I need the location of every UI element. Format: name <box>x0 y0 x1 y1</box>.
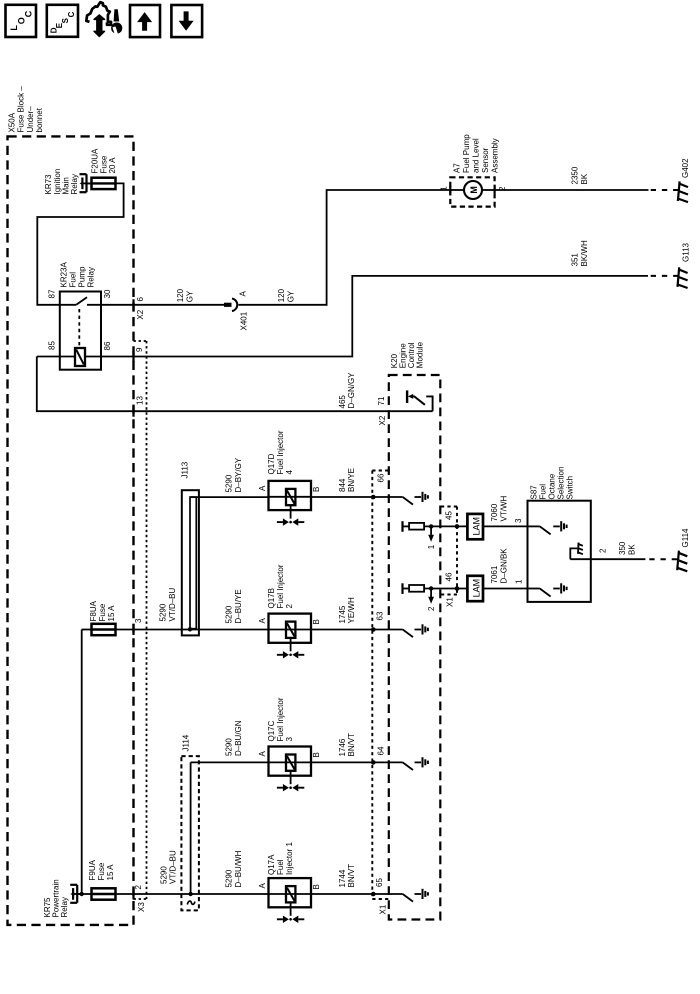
svg-text:350: 350 <box>618 541 627 555</box>
fuse block pin 2 tick <box>132 889 134 900</box>
svg-text:B: B <box>312 487 321 492</box>
motor M symbol <box>450 189 464 191</box>
svg-text:Switch: Switch <box>566 476 575 500</box>
ECM pin 64 driver to ground <box>403 762 413 770</box>
svg-text:1: 1 <box>515 579 524 584</box>
svg-text:BN/YE: BN/YE <box>347 468 356 492</box>
A7 pin 1 label <box>440 186 449 191</box>
ECM pin 65 driver to ground <box>403 894 413 902</box>
svg-text:351: 351 <box>571 253 580 267</box>
svg-text:1: 1 <box>427 544 436 549</box>
svg-text:GY: GY <box>185 290 194 302</box>
pin 46 connector dot <box>455 586 460 591</box>
ECM pin 63 driver to ground <box>403 630 413 638</box>
pin 45 connector dot <box>455 524 460 529</box>
button DESC <box>47 5 78 37</box>
svg-text:Fuel: Fuel <box>539 484 548 500</box>
svg-text:45: 45 <box>445 511 454 520</box>
Q17A coil <box>269 893 312 895</box>
splice pack J114 dashed box <box>181 756 199 910</box>
ECM pin 63 label <box>376 611 385 620</box>
svg-text:5290: 5290 <box>159 603 168 621</box>
label 120 GY right <box>277 288 295 302</box>
svg-text:X3: X3 <box>137 902 146 912</box>
svg-text:Fuse Block –: Fuse Block – <box>17 86 26 133</box>
svg-text:X2: X2 <box>136 309 145 319</box>
svg-text:VT/WH: VT/WH <box>499 496 508 522</box>
svg-text:6: 6 <box>136 297 145 302</box>
svg-text:BN/VT: BN/VT <box>347 733 356 757</box>
Q17D pin A label <box>258 485 267 491</box>
pin 30 label <box>103 289 112 298</box>
Q17C pin B label <box>312 752 321 757</box>
arrow to circuit 2 <box>430 589 432 598</box>
svg-text:13: 13 <box>136 396 145 405</box>
wire 351 BK/WH (pin 86 to G113) <box>85 276 648 357</box>
svg-text:86: 86 <box>103 341 112 350</box>
svg-text:71: 71 <box>377 396 386 405</box>
A7 pin 1 tick <box>449 186 451 194</box>
pin 63 connector dot <box>371 627 376 632</box>
svg-text:BK: BK <box>580 173 589 184</box>
S87 switch contact (pin 1) <box>528 588 540 590</box>
Q17D coil <box>269 496 312 498</box>
J114 center wire <box>190 762 192 894</box>
wire KR75 branch up to F8UA <box>81 630 83 895</box>
fuse F8UA 15 A <box>82 629 92 631</box>
wire 5290 D-BU/YE (J113 to Q17B) <box>190 629 269 631</box>
wire 1745 YE/WH <box>311 629 403 631</box>
svg-text:3: 3 <box>134 618 143 623</box>
ECM pin 46 label <box>445 572 454 581</box>
svg-text:120: 120 <box>277 288 286 302</box>
connector face dotted line <box>134 340 147 342</box>
svg-text:Fuel Injector: Fuel Injector <box>276 697 285 741</box>
pin 85 label <box>48 341 57 350</box>
ECM connector X1 dotted strip <box>372 470 389 472</box>
ECM X1 dotted strip (pins 45/46) <box>441 506 457 508</box>
svg-text:3: 3 <box>514 518 523 523</box>
svg-text:Relay: Relay <box>60 897 69 917</box>
svg-text:A7: A7 <box>453 163 462 173</box>
svg-text:2: 2 <box>285 604 294 609</box>
wire KR73 to F20UA <box>87 182 92 184</box>
svg-text:C: C <box>67 11 76 17</box>
svg-text:120: 120 <box>176 288 185 302</box>
svg-text:Octane: Octane <box>548 473 557 499</box>
S87 pin 1 label <box>515 579 524 584</box>
S87 switch contact (pin 3) <box>528 525 540 527</box>
svg-text:844: 844 <box>338 478 347 492</box>
wire 465 D-GN/GY (to ECM pin 71) <box>37 357 433 412</box>
svg-text:A: A <box>258 883 267 889</box>
svg-text:S87: S87 <box>530 485 539 500</box>
svg-text:20 A: 20 A <box>108 157 117 174</box>
pin 64 connector dot <box>371 760 376 765</box>
label X50A Fuse Block Underbonnet <box>7 112 16 132</box>
svg-text:D–GN/GY: D–GN/GY <box>347 372 356 409</box>
wire pin 45 to LAM <box>424 525 467 527</box>
svg-text:BK/WH: BK/WH <box>580 240 589 266</box>
Q17C spray symbol <box>277 787 283 789</box>
label 120 GY left <box>176 288 194 302</box>
svg-text:A: A <box>239 291 248 297</box>
svg-text:X1: X1 <box>446 597 455 607</box>
injector Q17D Fuel Injector 4 box <box>269 481 312 510</box>
ECM internal supply T-bar (pin 45) <box>401 521 403 532</box>
ground G114 <box>677 551 679 571</box>
svg-text:Fuel Pump: Fuel Pump <box>462 134 471 173</box>
svg-text:G113: G113 <box>682 242 691 262</box>
switch S87 Fuel Octane Selection Switch box <box>528 501 591 602</box>
fuse block pin 9 tick <box>132 351 134 362</box>
svg-text:B: B <box>312 619 321 624</box>
svg-text:D–BY/GY: D–BY/GY <box>234 457 243 492</box>
ECM pin 66 driver to ground <box>403 497 413 505</box>
svg-text:Module: Module <box>416 341 425 368</box>
module K20 Engine Control Module dashed box <box>389 375 441 920</box>
wire 7060 VT/WH <box>483 525 528 527</box>
Q17B coil <box>269 629 312 631</box>
svg-text:O: O <box>17 17 27 24</box>
svg-text:1: 1 <box>440 186 449 191</box>
svg-text:1744: 1744 <box>338 869 347 887</box>
fuse block pin 6 tick <box>132 299 134 310</box>
wire 5290 VT/D-BU (F9UA to J114) <box>116 893 184 895</box>
wire 844 BN/YE <box>311 496 403 498</box>
svg-text:85: 85 <box>48 341 57 350</box>
connector LAM (7061) <box>467 576 483 601</box>
wire 1744 BN/VT <box>311 893 403 895</box>
wire pin 85 to corner <box>37 356 75 358</box>
fuse F20UA 20 A <box>92 178 116 189</box>
svg-text:1745: 1745 <box>338 605 347 623</box>
svg-text:5290: 5290 <box>159 866 168 884</box>
svg-text:Q17B: Q17B <box>267 588 276 608</box>
svg-text:Pump: Pump <box>78 266 87 287</box>
ECM pin 45 label <box>445 511 454 520</box>
svg-text:2350: 2350 <box>571 166 580 184</box>
connector X401 <box>232 299 237 312</box>
svg-text:G114: G114 <box>681 528 690 548</box>
svg-text:64: 64 <box>377 746 386 755</box>
S87 pin 2 label <box>599 548 608 553</box>
Q17A pin A label <box>258 883 267 889</box>
ECM pin 66 label <box>377 473 386 482</box>
A7 pin 2 label <box>498 186 507 191</box>
svg-text:Fuel: Fuel <box>69 272 78 288</box>
relay KR23A Fuel Pump Relay box <box>60 292 101 370</box>
relay KR75 Powertrain Relay (output stub) <box>70 884 77 886</box>
svg-text:D–BU/WH: D–BU/WH <box>234 850 243 887</box>
svg-text:5290: 5290 <box>225 869 234 887</box>
svg-text:X50A: X50A <box>7 112 16 132</box>
ground G402 <box>678 181 680 201</box>
fuse block pin 13 tick <box>132 406 134 417</box>
svg-text:4: 4 <box>285 470 294 475</box>
svg-text:X1: X1 <box>379 904 388 914</box>
pin 66 connector dot <box>371 495 376 500</box>
wire through J114 to Q17A <box>183 893 269 895</box>
ground G113 <box>678 267 680 287</box>
svg-text:Injector 1: Injector 1 <box>285 842 294 875</box>
ECM pin 65 label <box>375 878 384 887</box>
connector LAM (7060) <box>467 514 483 539</box>
svg-text:and Level: and Level <box>472 138 481 173</box>
Q17D spray symbol <box>277 521 283 523</box>
resistor (pin 46 pull-up) <box>403 588 410 590</box>
svg-text:D–GN/BK: D–GN/BK <box>499 548 508 584</box>
S87 internal chassis ground <box>570 548 577 559</box>
svg-text:J113: J113 <box>181 461 190 478</box>
wire 120 GY (pin 30 to X401) <box>87 304 224 306</box>
arrow to circuit 1 <box>430 526 432 535</box>
svg-text:B: B <box>312 884 321 889</box>
svg-text:30: 30 <box>103 289 112 298</box>
svg-text:2: 2 <box>599 548 608 553</box>
svg-text:VT/D–BU: VT/D–BU <box>169 850 178 884</box>
svg-text:Relay: Relay <box>87 267 96 287</box>
svg-text:Under–: Under– <box>26 106 35 133</box>
svg-text:Fuse: Fuse <box>98 603 107 621</box>
svg-text:VT/D–BU: VT/D–BU <box>168 587 177 621</box>
svg-text:LAM: LAM <box>472 517 482 536</box>
svg-text:Fuel: Fuel <box>276 859 285 875</box>
ECM pin 71 driver <box>426 396 432 411</box>
svg-text:J114: J114 <box>182 734 191 751</box>
A7 pin 2 tick <box>494 186 496 194</box>
svg-text:66: 66 <box>377 473 386 482</box>
svg-text:GY: GY <box>286 290 295 302</box>
fuse block pin 3 tick <box>132 624 134 635</box>
svg-text:F20UA: F20UA <box>91 148 100 174</box>
Q17C pin A label <box>258 751 267 757</box>
wire 1746 BN/VT <box>311 761 403 763</box>
ECM pin 64 label <box>377 746 386 755</box>
wire 7061 D-GN/BK <box>483 588 528 590</box>
injector Q17C Fuel Injector 3 box <box>269 747 312 776</box>
KR23A coil <box>75 348 85 366</box>
wire 5290 VT/D-BU (F8UA to J113) <box>116 629 191 631</box>
svg-text:C: C <box>23 10 33 17</box>
svg-text:465: 465 <box>338 395 347 409</box>
svg-text:15 A: 15 A <box>107 605 116 622</box>
label X3 connector <box>137 902 146 912</box>
svg-text:46: 46 <box>445 572 454 581</box>
svg-text:KR23A: KR23A <box>60 261 69 287</box>
label X2 connector <box>136 309 145 319</box>
svg-text:15 A: 15 A <box>106 864 115 881</box>
svg-text:9: 9 <box>135 347 144 352</box>
junction dot J114 <box>188 892 192 896</box>
ECM internal supply T-bar (pin 46) <box>401 583 403 594</box>
svg-text:A: A <box>258 618 267 624</box>
svg-text:65: 65 <box>375 878 384 887</box>
button LOC <box>6 5 37 37</box>
svg-text:LAM: LAM <box>472 579 482 598</box>
Q17A pin B label <box>312 884 321 889</box>
svg-text:X2: X2 <box>378 415 387 425</box>
pin 86 label <box>103 341 112 350</box>
injector Q17A Fuel Injector 1 box <box>269 878 312 907</box>
label 5290 D-BU/WH <box>225 850 243 887</box>
svg-text:D–BU/YE: D–BU/YE <box>234 589 243 623</box>
svg-text:X401: X401 <box>240 311 249 330</box>
svg-text:Q17A: Q17A <box>267 854 276 875</box>
wire pin 46 to LAM <box>424 588 467 590</box>
svg-text:A: A <box>258 485 267 491</box>
svg-text:L: L <box>9 25 19 31</box>
svg-text:G402: G402 <box>681 158 690 178</box>
junction dot pin 46 <box>429 586 433 590</box>
relay KR73 Ignition Main Relay (output stub) <box>80 173 87 175</box>
svg-text:Q17D: Q17D <box>267 453 276 474</box>
junction dot KR75 branch <box>80 892 84 896</box>
svg-text:D–BU/GN: D–BU/GN <box>234 720 243 756</box>
pin 87 label <box>48 289 57 298</box>
icon adjust (arrows + wrench) <box>86 2 122 36</box>
svg-text:Relay: Relay <box>70 174 79 194</box>
svg-text:Assembly: Assembly <box>491 138 500 173</box>
svg-text:Fuel Injector: Fuel Injector <box>276 564 285 608</box>
svg-text:7060: 7060 <box>490 503 499 521</box>
svg-text:Fuel Injector: Fuel Injector <box>276 430 285 474</box>
Q17B pin B label <box>312 619 321 624</box>
button up arrow <box>130 5 160 37</box>
svg-text:63: 63 <box>376 611 385 620</box>
pin 65 connector dot <box>371 892 376 897</box>
button down arrow <box>171 5 202 37</box>
injector Q17B Fuel Injector 2 box <box>269 614 312 643</box>
A7 Fuel Pump and Level Sensor Assembly box <box>450 177 494 206</box>
fuse block X50A dashed box <box>8 136 134 925</box>
wire 350 BK <box>570 558 645 560</box>
wire 5290 D-BU/GN (J114 to Q17C) <box>191 761 269 763</box>
wire F20UA to KR23A pin 87 <box>37 183 123 304</box>
svg-text:KR73: KR73 <box>44 174 53 195</box>
Q17C coil <box>269 761 312 763</box>
wire 120 GY (X401 to A7) <box>238 190 449 305</box>
svg-text:5290: 5290 <box>225 474 234 492</box>
fuse F9UA 15 A <box>77 893 91 895</box>
svg-text:1746: 1746 <box>338 738 347 756</box>
svg-text:5290: 5290 <box>225 605 234 623</box>
svg-text:2: 2 <box>134 885 143 890</box>
junction dot J113 bottom <box>188 627 192 631</box>
wire 2350 BK <box>495 189 649 191</box>
svg-text:Sensor: Sensor <box>481 147 490 173</box>
svg-text:87: 87 <box>48 289 57 298</box>
resistor (pin 45 pull-up) <box>403 525 410 527</box>
svg-text:Selection: Selection <box>557 467 566 500</box>
wire 5290 D-BY/GY (J113 to Q17D) <box>190 496 269 498</box>
svg-text:BN/VT: BN/VT <box>347 864 356 888</box>
svg-text:YE/WH: YE/WH <box>347 597 356 623</box>
svg-text:A: A <box>258 751 267 757</box>
Q17B spray symbol <box>277 654 283 656</box>
svg-text:F8UA: F8UA <box>89 600 98 621</box>
KR23A coil link (dashed) <box>78 309 80 347</box>
svg-text:F9UA: F9UA <box>88 859 97 880</box>
svg-text:Fuse: Fuse <box>97 862 106 880</box>
svg-text:5290: 5290 <box>225 738 234 756</box>
svg-text:M: M <box>469 186 479 194</box>
ECM X2 pin 71 labels <box>377 396 386 405</box>
svg-text:Q17C: Q17C <box>267 720 276 741</box>
Q17A spray symbol <box>277 918 283 920</box>
junction dot pin 45 <box>429 524 433 528</box>
Q17D pin B label <box>312 487 321 492</box>
svg-text:bonnet: bonnet <box>35 107 44 132</box>
KR23A switch blade <box>76 297 87 305</box>
svg-text:B: B <box>312 752 321 757</box>
svg-text:7061: 7061 <box>490 565 499 583</box>
svg-text:2: 2 <box>427 606 436 611</box>
svg-text:3: 3 <box>285 737 294 742</box>
S87 pin 3 label <box>514 518 523 523</box>
splice pack J113 <box>182 490 199 635</box>
svg-text:BK: BK <box>627 544 636 555</box>
Q17B pin A label <box>258 618 267 624</box>
